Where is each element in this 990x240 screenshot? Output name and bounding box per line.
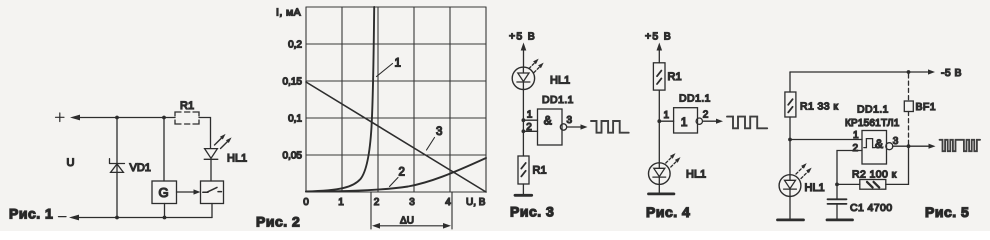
svg-text:ΔU: ΔU	[400, 216, 414, 227]
ground fig4	[649, 192, 674, 195]
node pin1 junction fig3	[522, 118, 526, 122]
node junction output fig5	[907, 144, 911, 148]
LED HL1 fig1 light arrows	[215, 134, 232, 149]
tone burst symbol fig5	[940, 140, 981, 151]
svg-text:2: 2	[703, 109, 709, 120]
label HL1 fig1	[227, 153, 247, 165]
svg-text:0,2: 0,2	[288, 40, 302, 51]
wire left rail fig5	[789, 72, 791, 92]
LED HL1 fig4	[649, 163, 671, 193]
svg-text:DD1.1: DD1.1	[679, 93, 711, 105]
y tick label 0,2	[288, 40, 302, 51]
pin 3 label fig3	[567, 115, 573, 126]
LED HL1 fig3	[512, 67, 534, 156]
arrow G to switch	[177, 189, 201, 194]
svg-text:C1 4700: C1 4700	[850, 202, 893, 214]
wire top rail fig1	[78, 117, 175, 119]
svg-text:3: 3	[409, 197, 415, 208]
generator G box	[152, 181, 177, 204]
node junction fig4	[657, 119, 661, 123]
x tick label 0	[303, 197, 309, 208]
label R1 fig4	[668, 71, 682, 83]
label R1 fig3	[533, 165, 547, 177]
x tick label 2	[374, 197, 380, 208]
wire bottom rail fig1	[77, 217, 212, 219]
svg-text:3: 3	[893, 136, 899, 147]
buzzer BF1	[904, 101, 913, 112]
resistor R1 fig5	[785, 92, 796, 117]
inversion circle output fig4	[696, 118, 702, 124]
svg-text:-5 В: -5 В	[941, 67, 962, 79]
wire R1 to ground fig3	[522, 184, 524, 194]
ground under HL1	[778, 218, 804, 221]
svg-text:U, В: U, В	[466, 197, 486, 208]
node junction input fig5	[788, 138, 792, 142]
square wave symbol fig3	[591, 121, 629, 133]
wire R2 left fig5	[837, 183, 860, 185]
axis label I, мА	[276, 7, 301, 19]
svg-text:G: G	[159, 185, 169, 200]
delta-U dimension arrow	[372, 216, 451, 229]
arrow into + terminal	[70, 115, 80, 121]
svg-text:VD1: VD1	[130, 162, 151, 174]
svg-text:R1: R1	[668, 71, 682, 83]
logic gate DD1.1 fig4 (inverter)	[674, 108, 698, 133]
power arrow up fig3	[521, 43, 527, 68]
svg-text:0,15: 0,15	[283, 77, 303, 88]
resistor R2 fig5	[860, 180, 886, 190]
wire VD1 branch	[116, 118, 118, 218]
inversion circle output fig3	[560, 124, 566, 130]
wire switch to bottom rail	[211, 204, 213, 218]
pointer and label 1	[377, 58, 401, 77]
svg-text:Рис. 5: Рис. 5	[925, 204, 969, 220]
svg-text:R1: R1	[180, 100, 194, 112]
zener diode VD1	[110, 159, 125, 173]
svg-text:2: 2	[853, 143, 859, 154]
caption Рис. 1	[9, 206, 53, 222]
label DD1.1 fig5	[857, 104, 889, 116]
x axis label U, В	[466, 197, 486, 208]
svg-text:R1: R1	[533, 165, 547, 177]
wire R1 to node fig5	[789, 117, 791, 140]
svg-text:1: 1	[664, 110, 670, 121]
svg-text:4: 4	[445, 197, 451, 208]
svg-text:Рис. 2: Рис. 2	[256, 214, 300, 230]
node junction G bottom	[163, 216, 167, 220]
svg-text:0,05: 0,05	[283, 151, 303, 162]
label +5 В fig4	[645, 31, 672, 43]
svg-text:1: 1	[681, 115, 688, 129]
svg-text:DD1.1: DD1.1	[542, 94, 574, 106]
square wave symbol fig4	[727, 117, 767, 129]
grid	[306, 7, 486, 192]
svg-text:0,1: 0,1	[288, 114, 302, 125]
pointer and label 2	[390, 167, 405, 187]
pin 2 wire fig3	[523, 122, 537, 133]
svg-text:3: 3	[436, 126, 442, 138]
curve 1 (LED I-V)	[306, 7, 374, 192]
pin 1 wire fig5	[790, 130, 862, 141]
svg-text:3: 3	[567, 115, 573, 126]
power arrow up fig4	[657, 43, 663, 63]
pin 2 wire fig5	[837, 143, 862, 184]
top rail fig5	[790, 71, 928, 73]
wire R1 to LED	[199, 118, 211, 149]
label U	[67, 157, 75, 169]
label HL1 fig4	[686, 169, 706, 181]
svg-text:BF1: BF1	[916, 101, 936, 113]
label R1 33 к	[800, 101, 838, 113]
node junction R2 C1 fig5	[835, 183, 839, 187]
svg-text:HL1: HL1	[227, 153, 247, 165]
svg-text:I, мА: I, мА	[276, 7, 301, 19]
caption Рис. 4	[646, 204, 690, 220]
svg-text:DD1.1: DD1.1	[857, 104, 889, 116]
wire node to LED fig5	[789, 140, 791, 181]
node junction top G branch	[162, 116, 166, 120]
output wire and arrow fig4	[704, 119, 724, 124]
resistor R1 fig1 (dashed box)	[175, 112, 199, 124]
wire R1 down to LED fig4	[658, 90, 660, 168]
svg-text:+5 В: +5 В	[645, 31, 672, 43]
svg-text:Рис. 3: Рис. 3	[510, 204, 554, 220]
caption Рис. 3	[510, 204, 554, 220]
svg-text:U: U	[67, 157, 75, 169]
label R2 100 к	[852, 169, 897, 181]
plus terminal label	[56, 113, 65, 122]
svg-text:2: 2	[374, 197, 380, 208]
node pin2 junction fig3	[522, 129, 526, 133]
LED HL1 fig5 light arrows (dashed)	[796, 163, 812, 178]
y tick label 0,05	[283, 151, 303, 162]
x tick label 4	[445, 197, 451, 208]
svg-text:1: 1	[395, 58, 401, 70]
pointer and label 3	[427, 126, 443, 150]
label DD1.1 fig4	[679, 93, 711, 105]
svg-text:Рис. 1: Рис. 1	[9, 206, 53, 222]
arrow into - terminal	[69, 215, 79, 221]
LED HL1 fig5	[779, 175, 801, 219]
svg-text:+5 В: +5 В	[509, 31, 536, 43]
caption Рис. 2	[256, 214, 300, 230]
node junction top BF1	[907, 70, 911, 74]
curve 2 (red LED I-V)	[306, 158, 486, 192]
ground fig3	[515, 194, 532, 197]
LED HL1 fig4 light arrows (dashed)	[666, 153, 681, 167]
svg-text:R1 33 к: R1 33 к	[800, 101, 838, 113]
pin 2 label fig4	[703, 109, 709, 120]
svg-text:&: &	[875, 137, 883, 151]
resistor R1 fig3	[518, 156, 529, 184]
pin 1 wire fig3	[523, 109, 537, 120]
x tick label 3	[409, 197, 415, 208]
minus terminal label	[59, 216, 67, 218]
caption Рис. 5	[925, 204, 969, 220]
wire to generator	[163, 118, 165, 182]
capacitor C1	[828, 184, 847, 218]
svg-text:HL1: HL1	[550, 75, 570, 87]
svg-text:2: 2	[399, 167, 405, 179]
curve 3 (load line)	[306, 82, 486, 192]
output wire and arrow fig3	[567, 124, 588, 129]
label R1 fig1	[180, 100, 194, 112]
svg-text:1: 1	[853, 130, 859, 141]
dashed wire to BF1	[908, 74, 910, 144]
arrow to -5 В	[928, 69, 935, 74]
label C1 4700	[850, 202, 893, 214]
label BF1	[916, 101, 936, 113]
LED HL1 fig3 light arrows (dashed)	[529, 59, 544, 73]
x tick label 1	[338, 197, 344, 208]
inversion circle output fig5	[886, 143, 893, 150]
node junction top VD1	[115, 116, 119, 120]
svg-text:Рис. 4: Рис. 4	[646, 204, 690, 220]
svg-text:2: 2	[526, 122, 532, 133]
logic gate DD1.1 fig3	[538, 109, 563, 145]
y tick label 0,1	[288, 114, 302, 125]
ground under C1	[827, 218, 853, 221]
label HL1 fig5	[805, 182, 825, 194]
LED HL1 fig1	[204, 149, 218, 181]
svg-text:R2 100 к: R2 100 к	[852, 169, 897, 181]
logic gate DD1.1 fig5 (Schmitt trigger)	[862, 131, 887, 165]
svg-text:HL1: HL1	[805, 182, 825, 194]
svg-text:КР1561ТЛ1: КР1561ТЛ1	[845, 118, 900, 129]
svg-text:1: 1	[527, 109, 533, 120]
pin 3 label fig5	[893, 136, 899, 147]
label +5 В fig3	[509, 31, 536, 43]
resistor R1 fig4	[653, 63, 665, 90]
output wire fig5	[893, 144, 936, 149]
svg-text:0: 0	[303, 197, 309, 208]
delta-U marker lines	[371, 192, 452, 229]
label КР1561ТЛ1	[845, 118, 900, 129]
label -5 В	[941, 67, 962, 79]
label DD1.1 fig3	[542, 94, 574, 106]
wire G to bottom rail	[164, 204, 166, 218]
label HL1 fig3	[550, 75, 570, 87]
wire R2 right to output fig5	[886, 146, 909, 184]
node junction bottom VD1	[115, 216, 119, 220]
pin 1 wire fig4	[659, 110, 673, 121]
electronic switch box	[201, 181, 224, 204]
svg-text:HL1: HL1	[686, 169, 706, 181]
svg-text:1: 1	[338, 197, 344, 208]
y tick label 0,15	[283, 77, 303, 88]
svg-text:&: &	[544, 114, 552, 128]
label VD1	[130, 162, 151, 174]
